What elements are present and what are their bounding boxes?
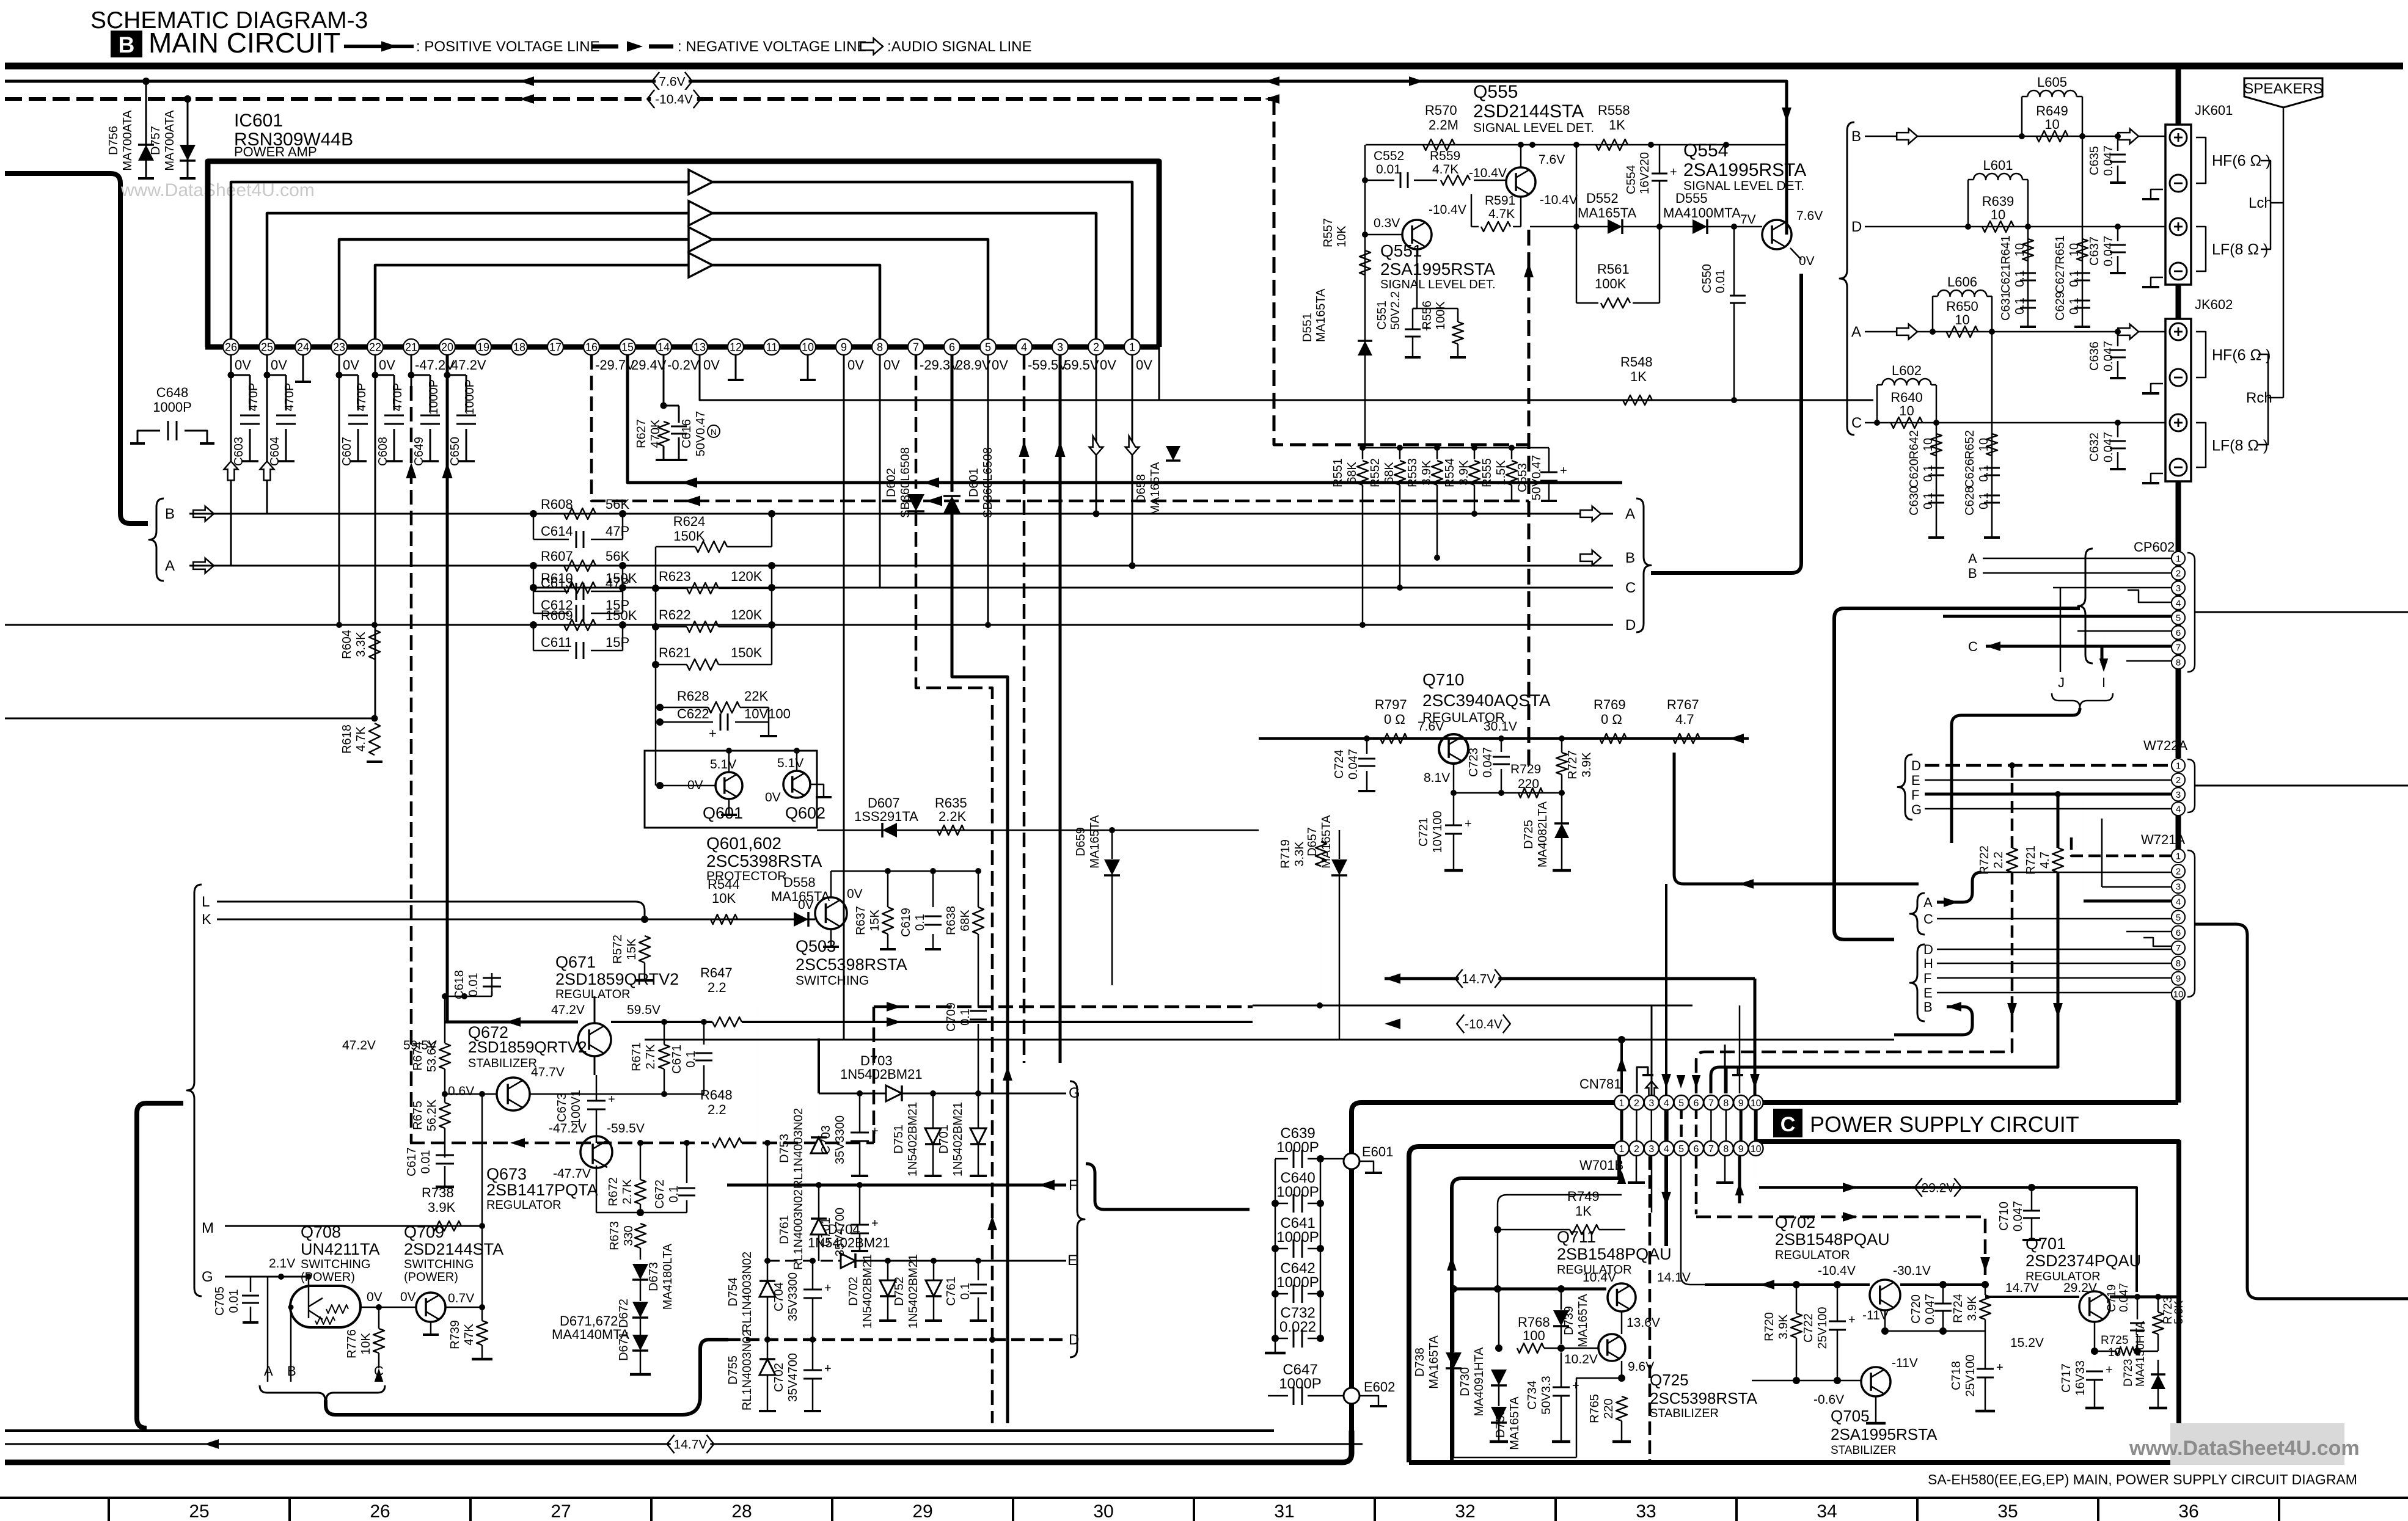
svg-text:5: 5 [1678, 1144, 1684, 1154]
svg-text:C672: C672 [653, 1180, 667, 1209]
svg-text:50V3.3: 50V3.3 [1540, 1376, 1553, 1414]
svg-text:C603: C603 [232, 437, 246, 466]
svg-text:LF(8 Ω ): LF(8 Ω ) [2212, 437, 2268, 454]
svg-text:+: + [871, 1125, 879, 1138]
svg-text:Q601,602: Q601,602 [706, 834, 781, 853]
svg-text:20: 20 [441, 341, 453, 353]
svg-text:19: 19 [477, 341, 489, 353]
svg-text:0.047: 0.047 [2011, 1201, 2025, 1231]
svg-text:-30.1V: -30.1V [1893, 1264, 1931, 1278]
svg-text:36: 36 [2178, 1501, 2198, 1521]
svg-text:10V100: 10V100 [744, 706, 791, 721]
svg-text:16V33: 16V33 [2074, 1360, 2087, 1396]
svg-text:C554: C554 [1625, 165, 1638, 194]
svg-text:1000P: 1000P [1276, 1274, 1319, 1291]
svg-text:D758: D758 [1494, 1409, 1507, 1438]
svg-text:1K: 1K [1575, 1203, 1592, 1219]
svg-text:IC601: IC601 [234, 111, 283, 131]
svg-text:R618: R618 [340, 724, 354, 754]
svg-text:10: 10 [1899, 403, 1914, 418]
svg-text:10K: 10K [712, 891, 736, 906]
svg-text:3: 3 [1649, 1144, 1654, 1154]
svg-text:330: 330 [622, 1225, 635, 1246]
svg-text:47P: 47P [606, 523, 629, 539]
svg-text:1000P: 1000P [427, 379, 441, 415]
svg-text:A: A [1851, 324, 1861, 340]
svg-text:R724: R724 [1952, 1294, 1965, 1323]
svg-text:MA4091HTA: MA4091HTA [1473, 1347, 1486, 1417]
svg-text:15K: 15K [868, 910, 882, 932]
svg-text:C550: C550 [1700, 264, 1714, 293]
svg-text:D601: D601 [967, 468, 981, 497]
svg-text:H: H [1923, 956, 1933, 971]
svg-text:R674: R674 [411, 1041, 425, 1071]
svg-text:MA165TA: MA165TA [1149, 462, 1162, 516]
svg-text:470P: 470P [391, 383, 404, 412]
svg-text:14.7V: 14.7V [674, 1438, 708, 1452]
svg-text:SWITCHING: SWITCHING [796, 974, 869, 988]
svg-text:L606: L606 [1947, 274, 1977, 290]
svg-text:D657: D657 [1306, 827, 1319, 856]
svg-text:5.1V: 5.1V [710, 757, 736, 771]
svg-text:10.2V: 10.2V [1564, 1352, 1598, 1366]
svg-text:7: 7 [2176, 643, 2181, 653]
svg-text:2.7K: 2.7K [644, 1044, 657, 1070]
svg-text:L602: L602 [1892, 363, 1922, 378]
svg-text:14.7V: 14.7V [2005, 1281, 2039, 1295]
svg-text:29: 29 [912, 1501, 932, 1521]
svg-text:D757: D757 [149, 126, 163, 155]
svg-text:C761: C761 [945, 1277, 958, 1306]
svg-text:Q710: Q710 [1422, 670, 1465, 689]
svg-text:R721: R721 [2024, 845, 2038, 875]
svg-text:2.7K: 2.7K [621, 1179, 634, 1205]
svg-text:16V220: 16V220 [1638, 152, 1652, 194]
svg-text:470P: 470P [247, 383, 260, 412]
svg-text:0.1: 0.1 [1922, 465, 1935, 482]
svg-text:47.7V: 47.7V [531, 1065, 565, 1079]
svg-text:2SC3940AQSTA: 2SC3940AQSTA [1422, 691, 1551, 710]
svg-text:SWITCHING: SWITCHING [404, 1258, 474, 1271]
svg-text:C629: C629 [2054, 291, 2067, 321]
svg-text:R551: R551 [1331, 458, 1345, 487]
svg-text:2.2: 2.2 [708, 980, 726, 995]
svg-text:3.9K: 3.9K [428, 1200, 456, 1215]
svg-text:R720: R720 [1763, 1312, 1776, 1341]
svg-text:2: 2 [2176, 569, 2181, 579]
svg-text:2SA1995RSTA: 2SA1995RSTA [1831, 1425, 1938, 1443]
svg-text:100K: 100K [1595, 276, 1627, 291]
svg-text:7: 7 [2176, 943, 2181, 954]
svg-text:0.01: 0.01 [227, 1289, 241, 1313]
svg-text:1: 1 [2176, 553, 2181, 564]
svg-text:C630: C630 [1908, 486, 1921, 516]
svg-text:47K: 47K [463, 1324, 476, 1346]
svg-text:10: 10 [2013, 243, 2027, 257]
svg-text:D725: D725 [1522, 820, 1535, 849]
svg-text:68K: 68K [959, 910, 972, 932]
svg-text:R672: R672 [607, 1177, 620, 1206]
svg-text:0.01: 0.01 [467, 973, 480, 997]
svg-text:1000P: 1000P [1276, 1229, 1319, 1246]
svg-text:0.047: 0.047 [2118, 1283, 2131, 1312]
svg-text:MA4082LTA: MA4082LTA [1536, 801, 1550, 867]
svg-text:SWITCHING: SWITCHING [301, 1258, 370, 1271]
svg-text:17: 17 [549, 341, 562, 353]
svg-text:R628: R628 [677, 688, 709, 704]
svg-text:POWER AMP: POWER AMP [234, 144, 317, 159]
svg-text:0.1: 0.1 [2013, 297, 2027, 315]
svg-text:1N5402BM21: 1N5402BM21 [907, 1254, 920, 1329]
svg-text:C631: C631 [1999, 291, 2013, 321]
svg-text:-10.4V: -10.4V [655, 93, 693, 107]
svg-text:B: B [119, 32, 135, 57]
svg-text:W721A: W721A [2141, 832, 2185, 847]
svg-text:D701: D701 [937, 1125, 951, 1154]
svg-text:2: 2 [1634, 1144, 1639, 1154]
svg-text:C616: C616 [680, 419, 693, 448]
svg-text:0.1: 0.1 [913, 914, 927, 931]
svg-text:13.6V: 13.6V [1627, 1316, 1660, 1330]
svg-text:C608: C608 [376, 437, 390, 466]
svg-text:+: + [709, 726, 717, 741]
svg-text:3: 3 [2176, 882, 2181, 892]
svg-text:10.4V: 10.4V [1583, 1271, 1616, 1285]
svg-text:E601: E601 [1362, 1144, 1393, 1159]
svg-text:2: 2 [2176, 867, 2181, 877]
svg-text:0V: 0V [379, 357, 395, 373]
svg-text:C720: C720 [1909, 1294, 1923, 1324]
svg-text:1N5402BM21: 1N5402BM21 [861, 1254, 874, 1329]
svg-text:0.022: 0.022 [1279, 1319, 1316, 1335]
svg-text:-10.4V: -10.4V [1465, 1018, 1502, 1032]
svg-text:C710: C710 [1997, 1202, 2011, 1231]
svg-text:4.7: 4.7 [2038, 852, 2052, 869]
svg-text:L601: L601 [1983, 158, 2013, 173]
svg-text:R624: R624 [673, 514, 706, 529]
svg-text:C552: C552 [1374, 149, 1404, 163]
svg-text:11: 11 [766, 341, 778, 353]
svg-text:10: 10 [1751, 1144, 1762, 1154]
svg-text:C: C [1968, 639, 1978, 654]
svg-text:56K: 56K [606, 497, 629, 512]
svg-text:150K: 150K [731, 645, 763, 660]
svg-text:C703: C703 [819, 1125, 833, 1154]
svg-text:+: + [1848, 1313, 1856, 1327]
svg-text:50V2.2: 50V2.2 [1389, 291, 1402, 330]
svg-text:STABILIZER: STABILIZER [1831, 1444, 1896, 1457]
svg-text:D753: D753 [778, 1134, 791, 1163]
svg-text:R607: R607 [541, 549, 573, 564]
svg-text:9: 9 [1738, 1144, 1744, 1154]
svg-text:68K: 68K [1383, 462, 1396, 484]
svg-text:10K: 10K [1335, 225, 1349, 247]
svg-text:1K: 1K [1630, 369, 1647, 384]
svg-text:A: A [264, 1363, 273, 1379]
svg-text:34: 34 [1817, 1501, 1837, 1521]
svg-text:B: B [287, 1363, 296, 1379]
svg-text:C724: C724 [1333, 750, 1346, 779]
svg-text:C702: C702 [772, 1363, 786, 1392]
svg-text:0.3V: 0.3V [1374, 216, 1400, 230]
svg-text:220: 220 [1518, 777, 1539, 791]
svg-text:26: 26 [225, 341, 237, 353]
svg-text:3.3K: 3.3K [1293, 841, 1306, 867]
svg-text:MA4180LTA: MA4180LTA [661, 1243, 675, 1310]
svg-text:R725: R725 [2101, 1334, 2128, 1347]
svg-text:10: 10 [802, 341, 814, 353]
svg-text:B: B [165, 506, 175, 522]
svg-text:15.2V: 15.2V [2010, 1336, 2044, 1350]
svg-text:0.047: 0.047 [1923, 1294, 1937, 1324]
svg-text:30: 30 [1093, 1501, 1113, 1521]
svg-text:6: 6 [2176, 928, 2181, 938]
svg-text:9: 9 [1738, 1098, 1744, 1109]
svg-text:0.047: 0.047 [2102, 432, 2115, 462]
svg-text:W701B: W701B [1579, 1158, 1623, 1173]
svg-text:G: G [1069, 1085, 1080, 1101]
svg-text:D: D [1911, 758, 1921, 773]
svg-text:R671: R671 [630, 1042, 643, 1071]
svg-text:1N5402BM21: 1N5402BM21 [951, 1102, 965, 1176]
svg-text:C607: C607 [340, 437, 354, 466]
svg-text:R769: R769 [1594, 697, 1626, 712]
svg-text:22: 22 [369, 341, 381, 353]
svg-text:STABILIZER: STABILIZER [1650, 1407, 1719, 1420]
svg-text:7: 7 [913, 341, 919, 353]
svg-text:3.9K: 3.9K [1457, 460, 1471, 486]
svg-text:28.9V: 28.9V [956, 357, 991, 373]
svg-text:UN4211TA: UN4211TA [301, 1240, 380, 1258]
svg-text:0.01: 0.01 [419, 1150, 433, 1174]
svg-text:I: I [2102, 675, 2106, 690]
svg-text:C: C [1625, 580, 1636, 596]
svg-text:4: 4 [1021, 341, 1027, 353]
svg-text:R610: R610 [541, 571, 573, 586]
svg-text:C671: C671 [670, 1045, 684, 1074]
svg-text:6: 6 [949, 341, 955, 353]
svg-text:47.2V: 47.2V [342, 1038, 376, 1052]
svg-text:2.2M: 2.2M [1429, 117, 1458, 133]
svg-text:+: + [1670, 166, 1677, 179]
svg-text:5: 5 [2176, 913, 2181, 923]
svg-text:R553: R553 [1406, 458, 1419, 487]
svg-text:C635: C635 [2088, 146, 2101, 175]
svg-text:10: 10 [1991, 207, 2005, 222]
svg-text:R729: R729 [1510, 762, 1541, 776]
svg-text:C636: C636 [2088, 341, 2101, 371]
svg-text:C632: C632 [2088, 432, 2101, 462]
svg-text:150K: 150K [606, 571, 637, 586]
svg-text:R572: R572 [611, 935, 624, 964]
svg-text:HF(6 Ω ): HF(6 Ω ) [2212, 347, 2271, 364]
svg-text:C: C [1923, 911, 1933, 927]
svg-text:56.2K: 56.2K [425, 1099, 439, 1131]
svg-text:150K: 150K [606, 608, 637, 623]
svg-text:14: 14 [657, 341, 670, 353]
svg-text:D673: D673 [647, 1262, 661, 1291]
svg-text:C622: C622 [677, 706, 709, 721]
svg-text:5: 5 [1678, 1098, 1684, 1109]
svg-text:0V: 0V [765, 790, 781, 804]
svg-text:-10.4V: -10.4V [1818, 1264, 1856, 1278]
svg-text:REGULATOR: REGULATOR [486, 1198, 562, 1212]
svg-text:16: 16 [585, 341, 598, 353]
svg-text:E: E [1067, 1252, 1077, 1269]
svg-text:1000P: 1000P [1276, 1139, 1319, 1156]
svg-text:3.9K: 3.9K [1420, 460, 1433, 486]
svg-text:Q601: Q601 [703, 804, 743, 822]
svg-text:W722A: W722A [2143, 738, 2187, 753]
svg-text:15: 15 [621, 341, 634, 353]
svg-text:D658: D658 [1135, 474, 1148, 503]
svg-text:D672: D672 [617, 1299, 631, 1328]
svg-text:MA700ATA: MA700ATA [121, 110, 134, 171]
svg-text:RL1N4003N02: RL1N4003N02 [741, 1330, 754, 1410]
svg-text:R621: R621 [659, 645, 691, 660]
svg-text:D659: D659 [1074, 827, 1088, 856]
svg-text:C637: C637 [2088, 236, 2101, 266]
svg-text:C619: C619 [899, 908, 913, 937]
svg-text:2.1V: 2.1V [269, 1257, 295, 1271]
svg-text:-0.2V: -0.2V [667, 357, 700, 373]
svg-text:0.01: 0.01 [1714, 269, 1727, 293]
svg-text:R554: R554 [1443, 458, 1457, 487]
svg-text:0.1: 0.1 [2068, 270, 2081, 287]
svg-text:4: 4 [2176, 804, 2181, 815]
svg-text:25V100: 25V100 [1964, 1355, 1977, 1397]
svg-text:0.6V: 0.6V [448, 1084, 474, 1098]
svg-text:8: 8 [2176, 958, 2181, 969]
svg-text:C721: C721 [1417, 817, 1430, 847]
svg-text:SB360L6508: SB360L6508 [899, 447, 912, 518]
svg-text:L: L [202, 894, 210, 910]
svg-text:+: + [871, 1217, 879, 1230]
svg-text:0.1: 0.1 [1977, 465, 1991, 482]
svg-text:10: 10 [2044, 117, 2059, 132]
svg-text:R608: R608 [541, 497, 573, 512]
svg-text:53.6K: 53.6K [425, 1040, 439, 1072]
svg-text:R637: R637 [854, 906, 868, 935]
svg-text:+: + [824, 1282, 832, 1295]
svg-text:C673: C673 [555, 1093, 569, 1122]
svg-text:D723: D723 [2122, 1359, 2135, 1387]
svg-text:1K: 1K [1609, 117, 1625, 133]
svg-text:12: 12 [730, 341, 742, 353]
svg-text:: POSITIVE VOLTAGE LINE: : POSITIVE VOLTAGE LINE [416, 38, 600, 55]
svg-text:R556: R556 [1421, 301, 1434, 330]
svg-text:J: J [2058, 675, 2065, 690]
svg-text:-10.4V: -10.4V [1429, 203, 1466, 217]
svg-text:0.047: 0.047 [1347, 749, 1360, 779]
svg-text:15K: 15K [625, 938, 639, 960]
svg-text:31: 31 [1274, 1501, 1294, 1521]
svg-text:SA-EH580(EE,EG,EP) MAIN, POWER: SA-EH580(EE,EG,EP) MAIN, POWER SUPPLY CI… [1928, 1472, 2357, 1487]
svg-text:MA165TA: MA165TA [1088, 815, 1102, 869]
svg-text:+: + [1996, 1361, 2004, 1374]
svg-text:R591: R591 [1485, 194, 1515, 208]
svg-text:C: C [1780, 1113, 1796, 1136]
svg-text:POWER SUPPLY CIRCUIT: POWER SUPPLY CIRCUIT [1810, 1112, 2079, 1137]
svg-text:10: 10 [1955, 312, 1969, 327]
svg-text:3: 3 [1649, 1098, 1654, 1109]
svg-text:D: D [1923, 942, 1933, 957]
svg-text:0.1: 0.1 [2068, 297, 2081, 315]
svg-text:STABILIZER: STABILIZER [468, 1057, 537, 1070]
svg-text:10K: 10K [359, 1333, 373, 1355]
svg-text:MAIN CIRCUIT: MAIN CIRCUIT [148, 27, 340, 59]
svg-text:2SB1548PQAU: 2SB1548PQAU [1557, 1245, 1672, 1263]
svg-text:7.6V: 7.6V [1418, 720, 1444, 734]
svg-text:14.7V: 14.7V [1462, 972, 1496, 987]
svg-text:SPEAKERS: SPEAKERS [2244, 81, 2322, 97]
svg-text:R797: R797 [1375, 697, 1407, 712]
svg-text:1000P: 1000P [463, 379, 477, 415]
svg-text:D754: D754 [726, 1277, 740, 1307]
svg-text:0V: 0V [798, 898, 814, 912]
svg-text:G: G [202, 1269, 213, 1285]
svg-text:1000P: 1000P [153, 399, 192, 415]
svg-text:D702: D702 [847, 1277, 860, 1306]
svg-text:28: 28 [731, 1501, 752, 1521]
svg-text:3: 3 [1057, 341, 1063, 353]
svg-text:D552: D552 [1586, 191, 1619, 206]
svg-text:56K: 56K [606, 549, 629, 564]
svg-text:R544: R544 [708, 877, 740, 892]
svg-text:MA165TA: MA165TA [1576, 1294, 1590, 1348]
svg-text:470K: 470K [649, 419, 662, 448]
svg-text:-47.2V: -47.2V [549, 1122, 587, 1136]
svg-text:13: 13 [693, 341, 706, 353]
svg-text:50V0.47: 50V0.47 [694, 411, 708, 457]
svg-text:C722: C722 [1802, 1313, 1815, 1343]
svg-text:150K: 150K [673, 528, 705, 544]
svg-text:1: 1 [2176, 851, 2181, 861]
svg-text:LF(8 Ω ): LF(8 Ω ) [2212, 241, 2268, 258]
svg-text:3: 3 [2176, 583, 2181, 594]
svg-text:Q709: Q709 [404, 1223, 444, 1241]
svg-text:R648: R648 [700, 1087, 733, 1103]
svg-text:7.6V: 7.6V [659, 75, 685, 89]
svg-text:C705: C705 [213, 1286, 227, 1316]
svg-text:R739: R739 [448, 1320, 462, 1349]
svg-text:D555: D555 [1675, 191, 1708, 206]
svg-text:0V: 0V [703, 357, 720, 373]
svg-text:R627: R627 [635, 419, 648, 448]
svg-text:SIGNAL LEVEL DET.: SIGNAL LEVEL DET. [1380, 278, 1496, 291]
svg-text:2.2K: 2.2K [939, 809, 967, 824]
svg-text:(POWER): (POWER) [404, 1271, 458, 1284]
svg-text:9: 9 [2176, 974, 2181, 984]
svg-text:-0.6V: -0.6V [1813, 1393, 1844, 1407]
svg-text:R651: R651 [2054, 235, 2067, 264]
svg-text:L605: L605 [2037, 75, 2067, 90]
svg-text:0V: 0V [400, 1290, 416, 1304]
svg-text:120K: 120K [731, 607, 763, 622]
svg-text:C717: C717 [2060, 1363, 2073, 1393]
svg-text:MA165TA: MA165TA [1427, 1335, 1441, 1389]
svg-text:C719: C719 [2106, 1285, 2118, 1312]
svg-text:+: + [1572, 1379, 1579, 1393]
svg-text:2SD1859QRTV2: 2SD1859QRTV2 [555, 970, 679, 988]
svg-text:Q554: Q554 [1683, 140, 1728, 161]
svg-text:35: 35 [1997, 1501, 2018, 1521]
svg-text:JK602: JK602 [2195, 297, 2233, 312]
svg-text:+: + [1560, 464, 1567, 478]
svg-text:C649: C649 [412, 437, 426, 466]
svg-text:0.7V: 0.7V [448, 1291, 474, 1305]
svg-text:RL1N4003N02: RL1N4003N02 [792, 1108, 805, 1189]
